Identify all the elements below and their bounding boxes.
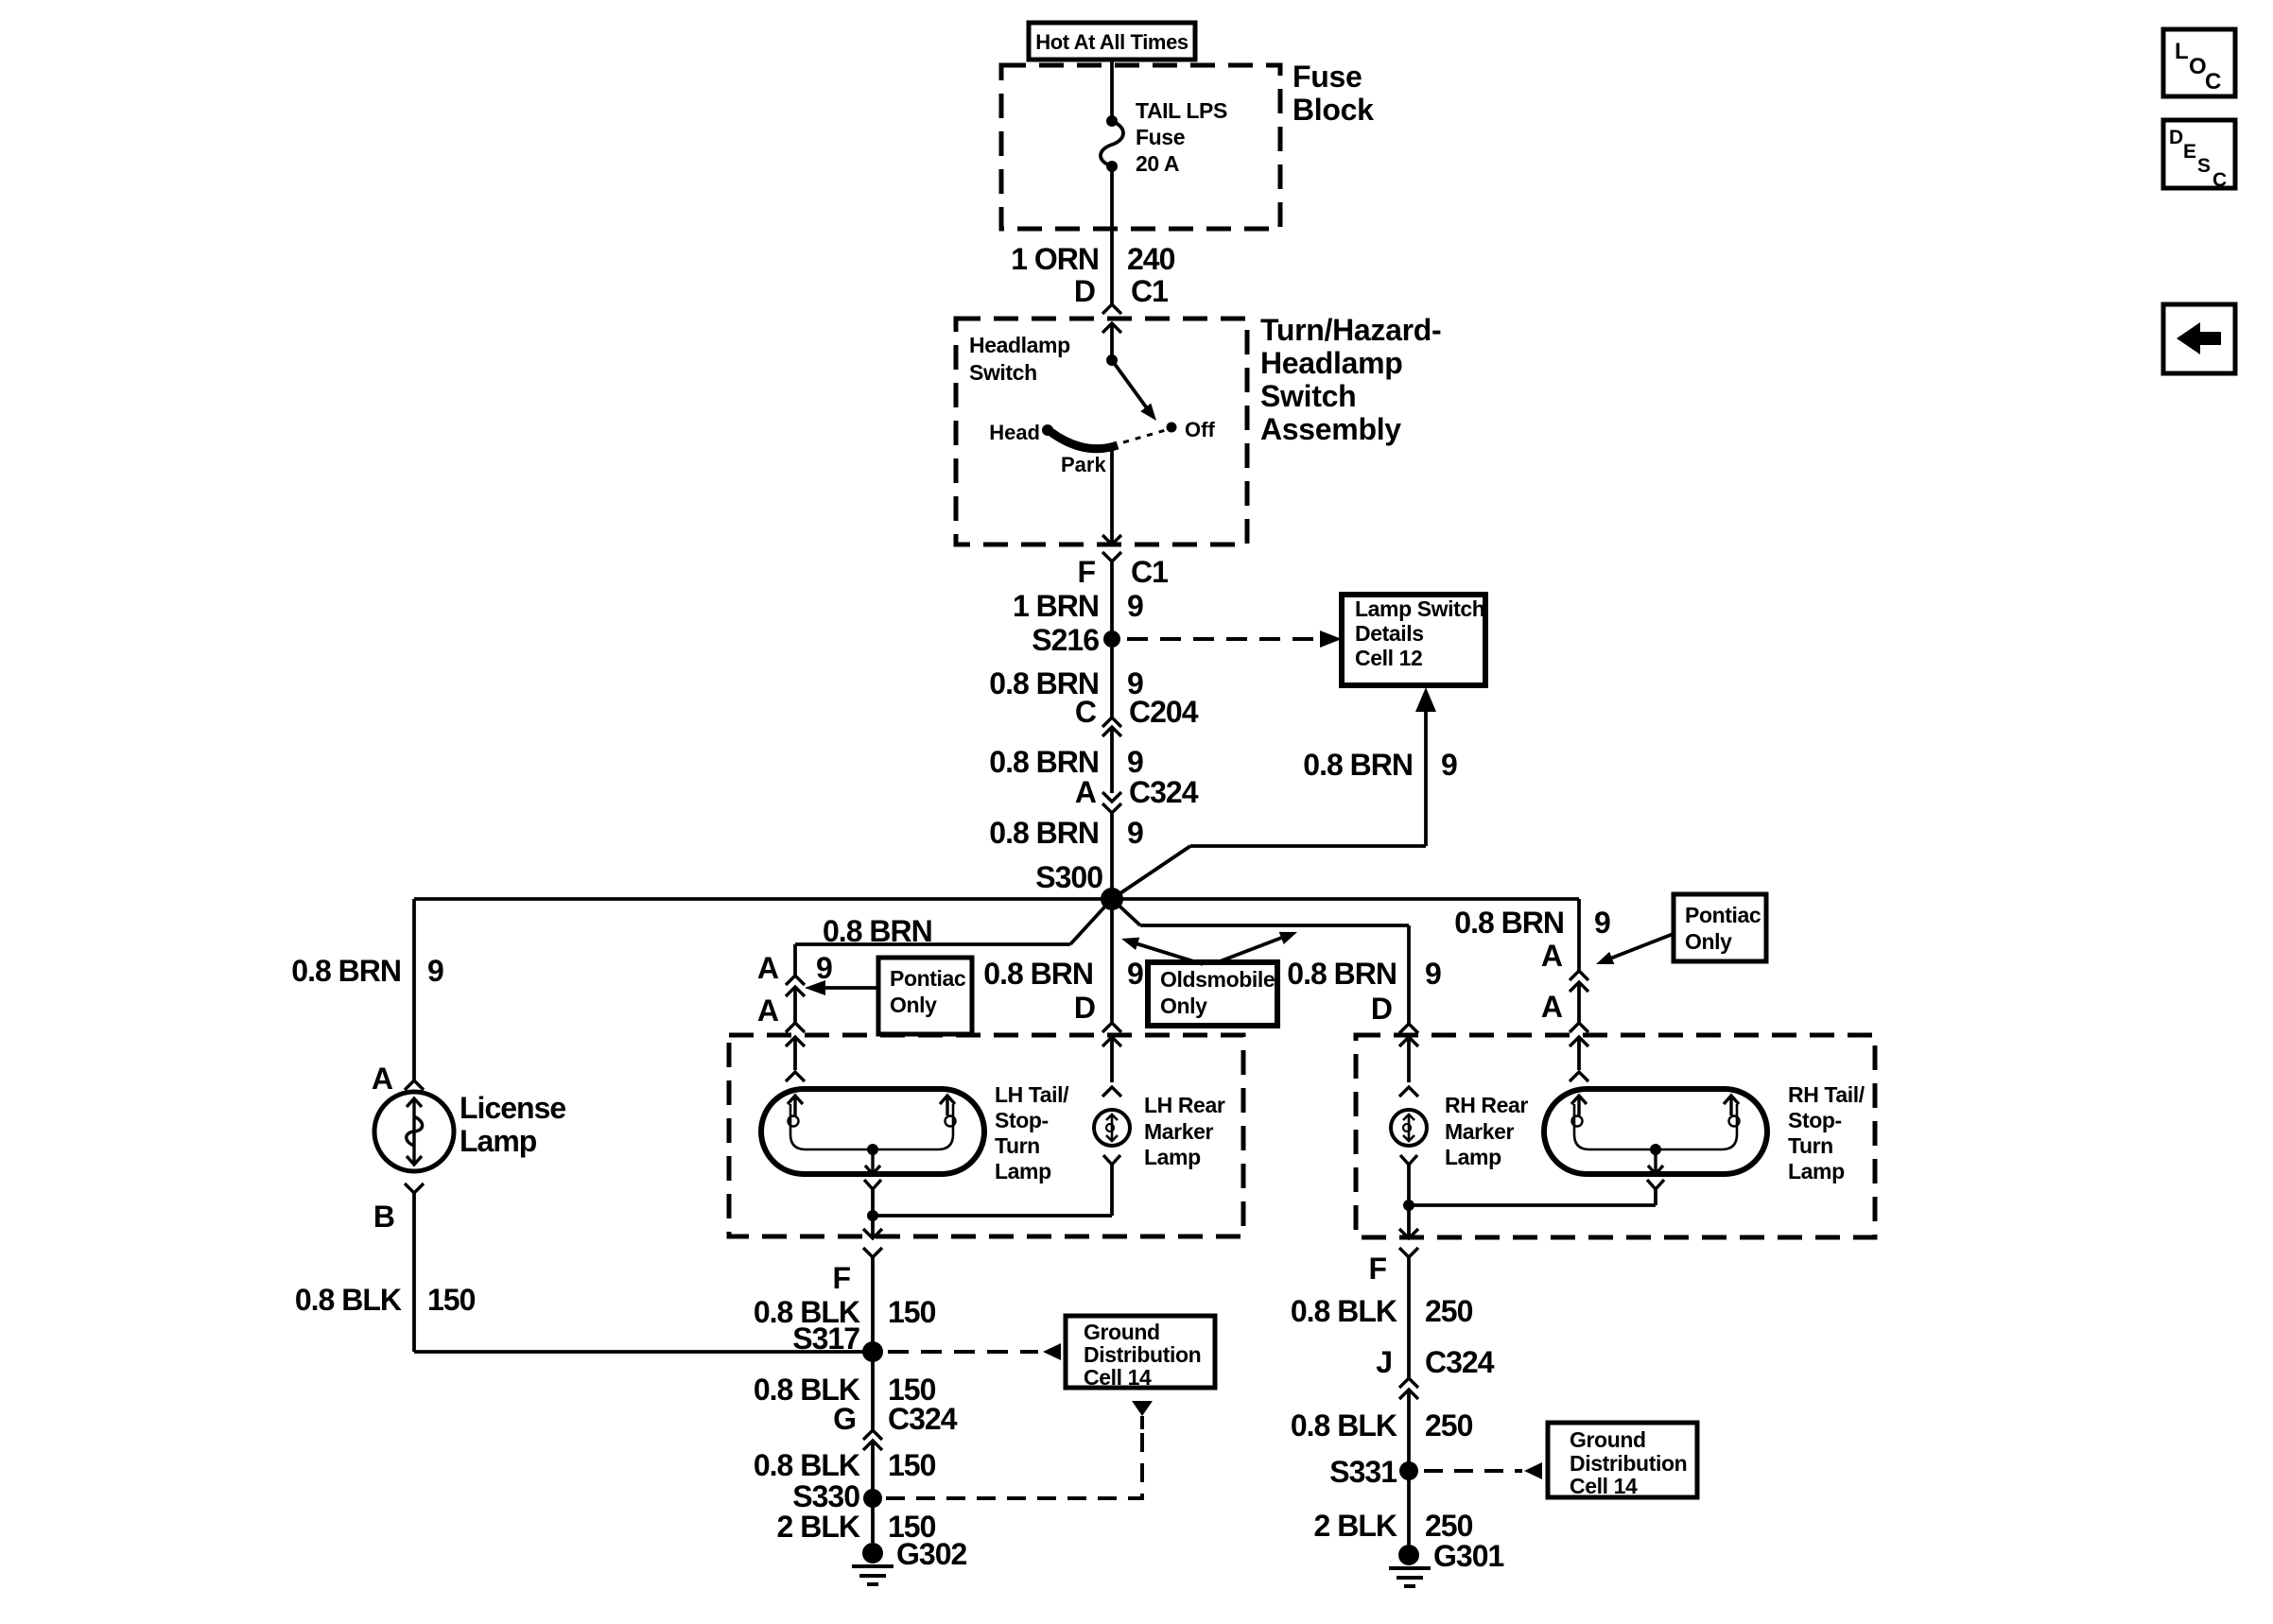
svg-text:C324: C324 xyxy=(1425,1345,1495,1379)
svg-text:Fuse: Fuse xyxy=(1136,125,1185,149)
svg-text:Lamp Switch: Lamp Switch xyxy=(1355,596,1484,621)
svg-text:S216: S216 xyxy=(1032,623,1099,657)
svg-text:C: C xyxy=(2212,169,2227,191)
svg-text:C1: C1 xyxy=(1131,274,1168,308)
svg-text:0.8 BRN: 0.8 BRN xyxy=(983,957,1093,991)
svg-text:LH Rear: LH Rear xyxy=(1144,1093,1225,1117)
svg-text:Lamp: Lamp xyxy=(1144,1145,1201,1169)
svg-text:0.8 BRN: 0.8 BRN xyxy=(1287,957,1397,991)
svg-text:Only: Only xyxy=(1160,993,1207,1018)
svg-text:S: S xyxy=(2197,155,2211,177)
svg-text:0.8 BLK: 0.8 BLK xyxy=(754,1448,860,1482)
svg-text:Headlamp: Headlamp xyxy=(969,333,1070,357)
svg-text:Pontiac: Pontiac xyxy=(890,966,966,991)
svg-text:O: O xyxy=(2189,54,2207,79)
svg-text:9: 9 xyxy=(1127,957,1143,991)
svg-text:A: A xyxy=(1541,990,1563,1024)
svg-text:G301: G301 xyxy=(1433,1539,1503,1573)
svg-text:RH Rear: RH Rear xyxy=(1445,1093,1528,1117)
svg-text:D: D xyxy=(1371,992,1392,1026)
svg-text:Cell 14: Cell 14 xyxy=(1570,1474,1638,1498)
svg-text:Only: Only xyxy=(890,993,937,1017)
svg-text:9: 9 xyxy=(1127,816,1143,850)
svg-text:A: A xyxy=(757,993,779,1028)
svg-text:S300: S300 xyxy=(1035,860,1102,894)
svg-text:A: A xyxy=(372,1062,393,1096)
svg-text:Lamp: Lamp xyxy=(995,1159,1051,1183)
svg-text:Cell 12: Cell 12 xyxy=(1355,646,1422,670)
svg-text:Switch: Switch xyxy=(969,360,1037,385)
svg-text:9: 9 xyxy=(1127,589,1143,623)
svg-text:D: D xyxy=(1074,274,1095,308)
svg-text:C: C xyxy=(1075,695,1097,729)
svg-text:A: A xyxy=(1075,775,1097,809)
svg-text:Off: Off xyxy=(1185,418,1215,441)
svg-text:9: 9 xyxy=(1594,906,1610,940)
svg-text:C324: C324 xyxy=(1129,775,1199,809)
svg-text:S331: S331 xyxy=(1329,1455,1397,1489)
svg-text:C324: C324 xyxy=(888,1402,958,1436)
svg-text:A: A xyxy=(757,951,779,985)
svg-text:Ground: Ground xyxy=(1570,1427,1646,1452)
svg-text:Headlamp: Headlamp xyxy=(1260,346,1403,380)
svg-text:0.8 BLK: 0.8 BLK xyxy=(295,1283,402,1317)
svg-text:9: 9 xyxy=(816,951,832,985)
svg-text:0.8 BRN: 0.8 BRN xyxy=(823,914,932,948)
svg-text:G: G xyxy=(833,1402,856,1436)
svg-text:C: C xyxy=(2205,69,2221,95)
svg-text:0.8 BLK: 0.8 BLK xyxy=(1291,1408,1397,1443)
svg-text:J: J xyxy=(1376,1345,1392,1379)
svg-text:Distribution: Distribution xyxy=(1570,1451,1687,1476)
svg-text:Marker: Marker xyxy=(1445,1119,1514,1144)
svg-text:RH Tail/: RH Tail/ xyxy=(1788,1082,1865,1107)
svg-text:C1: C1 xyxy=(1131,555,1168,589)
svg-text:C204: C204 xyxy=(1129,695,1199,729)
svg-text:Park: Park xyxy=(1061,453,1106,476)
svg-text:Lamp: Lamp xyxy=(1788,1159,1845,1183)
svg-text:0.8 BLK: 0.8 BLK xyxy=(1291,1294,1397,1328)
svg-text:Lamp: Lamp xyxy=(460,1124,537,1158)
svg-text:Distribution: Distribution xyxy=(1084,1342,1201,1367)
svg-text:F: F xyxy=(832,1261,850,1295)
svg-text:20 A: 20 A xyxy=(1136,151,1179,176)
svg-text:D: D xyxy=(1074,991,1095,1025)
svg-text:2 BLK: 2 BLK xyxy=(1314,1509,1397,1543)
svg-text:B: B xyxy=(373,1200,394,1234)
svg-text:1 ORN: 1 ORN xyxy=(1011,242,1099,276)
svg-text:2 BLK: 2 BLK xyxy=(777,1510,860,1544)
svg-text:F: F xyxy=(1077,555,1095,589)
svg-text:150: 150 xyxy=(888,1295,936,1329)
svg-text:L: L xyxy=(2175,39,2189,64)
svg-text:Only: Only xyxy=(1685,929,1732,954)
svg-text:Turn: Turn xyxy=(1788,1133,1833,1158)
svg-text:150: 150 xyxy=(427,1283,476,1317)
svg-text:250: 250 xyxy=(1425,1509,1473,1543)
svg-text:9: 9 xyxy=(1425,957,1441,991)
svg-text:0.8 BRN: 0.8 BRN xyxy=(1454,906,1564,940)
svg-text:Head: Head xyxy=(989,421,1040,444)
svg-text:Fuse: Fuse xyxy=(1293,60,1362,94)
svg-text:D: D xyxy=(2169,127,2183,148)
svg-text:Turn: Turn xyxy=(995,1133,1040,1158)
svg-text:S317: S317 xyxy=(792,1322,859,1356)
svg-text:150: 150 xyxy=(888,1448,936,1482)
svg-text:A: A xyxy=(1541,939,1563,973)
svg-text:LH Tail/: LH Tail/ xyxy=(995,1082,1069,1107)
svg-text:Marker: Marker xyxy=(1144,1119,1213,1144)
svg-text:Block: Block xyxy=(1293,93,1374,127)
svg-text:0.8 BRN: 0.8 BRN xyxy=(1303,748,1413,782)
svg-text:S330: S330 xyxy=(792,1479,859,1513)
svg-text:0.8 BRN: 0.8 BRN xyxy=(989,816,1099,850)
svg-text:Pontiac: Pontiac xyxy=(1685,903,1761,927)
svg-text:250: 250 xyxy=(1425,1294,1473,1328)
svg-text:0.8 BRN: 0.8 BRN xyxy=(989,745,1099,779)
svg-text:Lamp: Lamp xyxy=(1445,1145,1501,1169)
svg-text:1 BRN: 1 BRN xyxy=(1013,589,1099,623)
svg-text:G302: G302 xyxy=(896,1537,966,1571)
svg-text:Cell 14: Cell 14 xyxy=(1084,1365,1152,1390)
svg-text:Oldsmobile: Oldsmobile xyxy=(1160,967,1275,992)
svg-text:License: License xyxy=(460,1091,565,1125)
svg-text:Stop-: Stop- xyxy=(995,1108,1049,1132)
svg-text:TAIL LPS: TAIL LPS xyxy=(1136,98,1227,123)
svg-text:0.8 BRN: 0.8 BRN xyxy=(291,954,401,988)
svg-text:E: E xyxy=(2183,141,2196,163)
svg-text:Switch: Switch xyxy=(1260,379,1356,413)
svg-text:Turn/Hazard-: Turn/Hazard- xyxy=(1260,313,1441,347)
svg-text:F: F xyxy=(1368,1252,1386,1286)
svg-text:Details: Details xyxy=(1355,621,1424,646)
svg-text:240: 240 xyxy=(1127,242,1175,276)
svg-text:9: 9 xyxy=(1127,745,1143,779)
svg-text:Ground: Ground xyxy=(1084,1320,1160,1344)
svg-text:250: 250 xyxy=(1425,1408,1473,1443)
svg-text:9: 9 xyxy=(1441,748,1457,782)
svg-text:Assembly: Assembly xyxy=(1260,412,1401,446)
svg-text:Stop-: Stop- xyxy=(1788,1108,1842,1132)
svg-text:Hot At All Times: Hot At All Times xyxy=(1035,30,1189,54)
svg-text:9: 9 xyxy=(427,954,443,988)
